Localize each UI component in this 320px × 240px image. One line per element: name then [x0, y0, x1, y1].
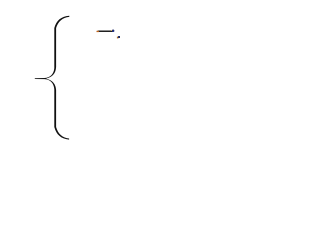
horizontal arrow shaft (small harpoon-like dash) — [98, 31, 114, 32]
barb navy right flank — [112, 30, 114, 33]
barb yellow left flank (above shaft) — [111, 30, 113, 32]
orange left fringe of arrow shaft — [97, 31, 99, 32]
left curly brace (big LaTeX-style delimiter) — [35, 16, 70, 140]
glyph fragment at right image edge (orange part) — [117, 37, 119, 39]
glyph fragment at right image edge (navy part) — [118, 36, 120, 38]
